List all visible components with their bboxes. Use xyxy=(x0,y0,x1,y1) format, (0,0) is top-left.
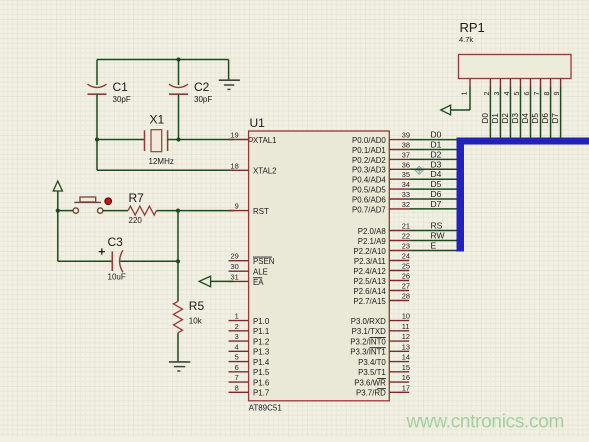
svg-text:7: 7 xyxy=(235,373,239,382)
svg-text:P0.6/AD6: P0.6/AD6 xyxy=(352,195,386,204)
pin 19 connection dot xyxy=(249,138,253,142)
pin 1 of RP1 xyxy=(460,79,471,111)
pin 12 P3.2/INT0 xyxy=(350,332,410,346)
svg-text:29: 29 xyxy=(230,252,238,261)
resistor R7 xyxy=(128,206,157,215)
svg-text:P0.7/AD7: P0.7/AD7 xyxy=(352,205,386,214)
pin 7 of RP1 wire D5 xyxy=(531,79,541,139)
svg-text:13: 13 xyxy=(402,342,410,351)
svg-text:P2.0/A8: P2.0/A8 xyxy=(358,227,387,236)
svg-text:AT89C51: AT89C51 xyxy=(249,403,283,412)
svg-text:P1.5: P1.5 xyxy=(253,368,270,377)
pin 23 P2.2/A10 xyxy=(353,242,410,256)
svg-text:P3.2/INT0: P3.2/INT0 xyxy=(350,337,386,346)
crystal X1 xyxy=(145,130,168,152)
pin 30 ALE xyxy=(229,262,268,276)
svg-text:P3.1/TXD: P3.1/TXD xyxy=(352,327,387,336)
svg-text:P1.4: P1.4 xyxy=(253,358,270,367)
svg-text:U1: U1 xyxy=(250,116,266,130)
plus sign of C3 xyxy=(99,248,105,254)
svg-text:P1.2: P1.2 xyxy=(253,337,269,346)
svg-text:17: 17 xyxy=(402,383,410,392)
svg-text:P0.3/AD3: P0.3/AD3 xyxy=(352,166,386,175)
svg-text:P1.0: P1.0 xyxy=(253,317,270,326)
pin 11 P3.1/TXD xyxy=(352,322,410,336)
pin 5 of RP1 wire D3 xyxy=(511,79,521,139)
svg-text:25: 25 xyxy=(402,262,410,271)
svg-text:P0.4/AD4: P0.4/AD4 xyxy=(352,176,386,185)
svg-text:220: 220 xyxy=(129,216,143,225)
svg-text:30pF: 30pF xyxy=(194,95,212,104)
pin 22 P2.1/A9 xyxy=(358,232,410,246)
svg-text:D2: D2 xyxy=(501,113,510,124)
pin 15 P3.5/T1 xyxy=(358,363,410,377)
wire RS P2.0 to bus xyxy=(409,230,457,232)
svg-text:6: 6 xyxy=(235,363,239,372)
button red indicator xyxy=(105,198,112,205)
node C2 bottom junction xyxy=(176,137,180,141)
pin 13 P3.3/INT1 xyxy=(350,342,410,356)
resistor R5 xyxy=(174,301,183,333)
svg-text:RST: RST xyxy=(253,207,269,216)
pin 3 P1.2 xyxy=(229,332,270,346)
svg-text:P0.5/AD5: P0.5/AD5 xyxy=(352,186,386,195)
svg-text:33: 33 xyxy=(402,190,410,199)
wire RP1 pin1 to power terminal xyxy=(450,109,470,111)
svg-text:P2.2/A10: P2.2/A10 xyxy=(353,247,386,256)
svg-text:11: 11 xyxy=(402,322,410,331)
svg-text:XTAL1: XTAL1 xyxy=(253,136,277,145)
ground bottom xyxy=(169,362,190,371)
pin 1 P1.0 xyxy=(229,312,270,326)
push button switch xyxy=(73,197,103,213)
pin 21 P2.0/A8 xyxy=(358,222,410,236)
svg-text:P0.0/AD0: P0.0/AD0 xyxy=(352,136,386,145)
wire RW P2.1 to bus xyxy=(409,240,457,242)
pin 4 P1.3 xyxy=(229,342,270,356)
wire D2 P0.2 to bus xyxy=(409,158,457,160)
svg-text:32: 32 xyxy=(402,200,410,209)
svg-text:P3.6/WR: P3.6/WR xyxy=(354,378,386,387)
wire D5 P0.5 to bus xyxy=(409,188,457,190)
svg-text:RW: RW xyxy=(431,231,445,241)
wire left vertical C1 to XTAL2 row xyxy=(96,140,98,171)
pin 34 P0.5/AD5 xyxy=(352,180,410,194)
wire EA terminal to pin 31 xyxy=(211,280,234,282)
resistor pack RP1 body xyxy=(459,55,572,79)
svg-text:C3: C3 xyxy=(108,235,124,249)
svg-text:10uF: 10uF xyxy=(108,273,126,282)
svg-text:24: 24 xyxy=(402,252,410,261)
svg-text:R7: R7 xyxy=(129,191,145,205)
node C3 right junction xyxy=(176,259,180,263)
node switch-row left junction xyxy=(56,209,60,213)
svg-text:P3.0/RXD: P3.0/RXD xyxy=(351,317,386,326)
svg-text:22: 22 xyxy=(402,232,410,241)
pin 35 P0.4/AD4 xyxy=(352,170,410,184)
svg-text:D4: D4 xyxy=(431,169,442,179)
svg-text:D7: D7 xyxy=(551,113,560,124)
pin 37 P0.2/AD2 xyxy=(352,150,410,164)
svg-text:X1: X1 xyxy=(150,113,165,127)
svg-text:38: 38 xyxy=(402,141,410,150)
svg-text:C2: C2 xyxy=(194,80,210,94)
svg-text:12: 12 xyxy=(402,332,410,341)
svg-text:1: 1 xyxy=(235,312,239,321)
svg-text:1: 1 xyxy=(460,92,469,96)
pin 36 P0.3/AD3 xyxy=(352,160,410,174)
pin 31 EA xyxy=(229,272,265,286)
wire down to R5 xyxy=(177,261,179,301)
pin 39 P0.0/AD0 xyxy=(352,131,410,145)
wire top C1 to ground corner xyxy=(97,59,229,61)
svg-text:P2.5/A13: P2.5/A13 xyxy=(353,277,386,286)
pin 10 P3.0/RXD xyxy=(351,312,410,326)
pin 3 of RP1 wire D1 xyxy=(491,79,501,139)
pin 9 of RP1 wire D7 xyxy=(551,79,561,139)
IC U1 AT89C51 body xyxy=(249,131,390,401)
svg-text:D5: D5 xyxy=(531,113,540,124)
svg-text:5: 5 xyxy=(235,353,239,362)
wire D0 P0.0 to bus xyxy=(409,139,457,141)
svg-text:2: 2 xyxy=(235,322,239,331)
svg-text:16: 16 xyxy=(402,373,410,382)
svg-text:XTAL2: XTAL2 xyxy=(253,167,277,176)
svg-text:4: 4 xyxy=(502,92,511,96)
pin 6 of RP1 wire D4 xyxy=(521,79,531,139)
wire D7 P0.7 to bus xyxy=(409,208,457,210)
svg-text:23: 23 xyxy=(402,242,410,251)
pin 38 P0.1/AD1 xyxy=(352,141,410,155)
pin 6 P1.5 xyxy=(229,363,270,377)
svg-text:19: 19 xyxy=(230,131,238,140)
svg-text:D0: D0 xyxy=(481,113,490,124)
svg-text:28: 28 xyxy=(402,292,410,301)
wire XTAL1 row left xyxy=(97,139,145,141)
svg-text:RP1: RP1 xyxy=(460,20,485,35)
svg-text:34: 34 xyxy=(402,180,410,189)
svg-text:37: 37 xyxy=(402,150,410,159)
svg-text:P1.6: P1.6 xyxy=(253,378,270,387)
wire XTAL2 row to U1 pin 18 xyxy=(97,169,234,171)
svg-text:P2.6/A14: P2.6/A14 xyxy=(353,287,386,296)
svg-text:E: E xyxy=(431,241,437,251)
svg-text:P2.3/A11: P2.3/A11 xyxy=(354,257,386,266)
svg-text:P3.3/INT1: P3.3/INT1 xyxy=(350,348,386,357)
RP1 power terminal (left arrow) xyxy=(441,105,451,115)
pin 19 XTAL1 xyxy=(229,131,277,145)
svg-text:30pF: 30pF xyxy=(113,95,131,104)
svg-text:2: 2 xyxy=(482,92,491,96)
pin 27 P2.6/A14 xyxy=(353,282,410,296)
svg-text:8: 8 xyxy=(235,383,239,392)
pin 33 P0.6/AD6 xyxy=(352,190,410,204)
wire D1 P0.1 to bus xyxy=(409,149,457,151)
node C1 bottom junction xyxy=(95,137,99,141)
svg-text:www.cntronics.com: www.cntronics.com xyxy=(406,412,565,433)
svg-text:5: 5 xyxy=(512,92,521,96)
svg-text:26: 26 xyxy=(402,272,410,281)
svg-text:EA: EA xyxy=(253,278,264,287)
pin 32 P0.7/AD7 xyxy=(352,200,410,214)
wire power to switch row xyxy=(57,191,59,211)
svg-text:D3: D3 xyxy=(431,159,442,169)
pin 17 P3.7/RD xyxy=(356,383,410,397)
wire C3 right lead xyxy=(120,260,178,262)
svg-text:P2.1/A9: P2.1/A9 xyxy=(358,237,387,246)
svg-text:PSEN: PSEN xyxy=(253,257,275,266)
svg-text:7: 7 xyxy=(532,92,541,96)
pin 5 P1.4 xyxy=(229,353,270,367)
svg-text:P3.4/T0: P3.4/T0 xyxy=(358,358,386,367)
svg-text:P3.5/T1: P3.5/T1 xyxy=(358,368,386,377)
wire R7 to U1 pin 9 RST xyxy=(157,210,234,212)
svg-text:12MHz: 12MHz xyxy=(149,157,174,166)
svg-text:6: 6 xyxy=(522,92,531,96)
pin 26 P2.5/A13 xyxy=(353,272,410,286)
svg-text:35: 35 xyxy=(402,170,410,179)
wire E P2.2 to bus xyxy=(409,250,457,252)
svg-text:D2: D2 xyxy=(431,149,442,159)
svg-text:10k: 10k xyxy=(189,317,203,326)
svg-text:3: 3 xyxy=(492,92,501,96)
svg-text:39: 39 xyxy=(402,131,410,140)
wire ground drop xyxy=(228,60,230,81)
pin 18 XTAL2 xyxy=(229,161,277,175)
origin marker diamond xyxy=(415,166,423,174)
svg-text:15: 15 xyxy=(402,363,410,372)
svg-text:4.7k: 4.7k xyxy=(459,35,473,44)
svg-text:27: 27 xyxy=(402,282,410,291)
svg-text:D7: D7 xyxy=(431,199,442,209)
bus horizontal xyxy=(457,138,589,145)
pin 24 P2.3/A11 xyxy=(354,252,410,266)
pin 7 P1.6 xyxy=(229,373,270,387)
pin 2 of RP1 wire D0 xyxy=(481,79,491,139)
pin 8 P1.7 xyxy=(229,383,270,397)
svg-text:P0.2/AD2: P0.2/AD2 xyxy=(352,156,386,165)
pin 16 P3.6/WR xyxy=(354,373,410,387)
EA power terminal (left arrow) xyxy=(199,276,210,287)
svg-text:D0: D0 xyxy=(431,130,442,140)
svg-text:36: 36 xyxy=(402,160,410,169)
svg-text:14: 14 xyxy=(402,353,410,362)
svg-text:ALE: ALE xyxy=(253,268,268,277)
power terminal (up arrow) xyxy=(53,181,62,191)
svg-text:P0.1/AD1: P0.1/AD1 xyxy=(352,146,386,155)
capacitor C2 xyxy=(169,60,188,140)
svg-text:D6: D6 xyxy=(431,189,442,199)
wire left vertical to C3 xyxy=(57,211,59,262)
svg-text:D6: D6 xyxy=(541,113,550,124)
svg-text:RS: RS xyxy=(431,221,443,231)
wire XTAL1 row right to U1 pin 19 xyxy=(168,139,234,141)
wire D3 P0.3 to bus xyxy=(409,168,457,170)
wire button to R7 xyxy=(103,210,128,212)
svg-text:30: 30 xyxy=(230,262,238,271)
wire branch down to C3 row xyxy=(177,211,179,262)
svg-text:21: 21 xyxy=(402,222,410,231)
svg-text:3: 3 xyxy=(235,332,239,341)
svg-text:P1.3: P1.3 xyxy=(253,348,270,357)
wire C3 left lead xyxy=(58,260,113,262)
wire to push button left contact xyxy=(58,210,73,212)
bus vertical xyxy=(457,138,465,252)
svg-text:10: 10 xyxy=(402,312,410,321)
svg-text:P2.7/A15: P2.7/A15 xyxy=(353,297,386,306)
svg-text:D1: D1 xyxy=(491,113,500,124)
capacitor C3 (polarized) xyxy=(112,250,123,272)
svg-text:D1: D1 xyxy=(431,140,442,150)
node RST branch junction xyxy=(176,209,180,213)
ground top xyxy=(219,80,240,89)
svg-text:9: 9 xyxy=(235,202,239,211)
svg-text:P2.4/A12: P2.4/A12 xyxy=(353,267,385,276)
svg-text:P3.7/RD: P3.7/RD xyxy=(356,389,386,398)
svg-text:R5: R5 xyxy=(189,299,205,313)
svg-text:4: 4 xyxy=(235,342,239,351)
pin 4 of RP1 wire D2 xyxy=(501,79,511,139)
wire D4 P0.4 to bus xyxy=(409,178,457,180)
pin 29 PSEN xyxy=(229,252,275,266)
svg-text:C1: C1 xyxy=(113,80,129,94)
svg-text:18: 18 xyxy=(230,161,238,170)
svg-text:P1.1: P1.1 xyxy=(253,327,269,336)
node C2 top junction xyxy=(176,57,180,61)
pin 2 P1.1 xyxy=(229,322,270,336)
pin 9 RST xyxy=(229,202,269,216)
svg-text:D5: D5 xyxy=(431,179,442,189)
svg-text:P1.7: P1.7 xyxy=(253,389,269,398)
wire R5 to ground xyxy=(177,333,179,362)
pin 8 of RP1 wire D6 xyxy=(541,79,551,139)
svg-text:8: 8 xyxy=(542,92,551,96)
svg-text:D3: D3 xyxy=(511,113,520,124)
wire D6 P0.6 to bus xyxy=(409,198,457,200)
pin 28 P2.7/A15 xyxy=(353,292,410,306)
svg-text:D4: D4 xyxy=(521,113,530,124)
svg-text:31: 31 xyxy=(230,272,238,281)
pin 25 P2.4/A12 xyxy=(353,262,410,276)
capacitor C1 xyxy=(88,60,107,140)
pin 14 P3.4/T0 xyxy=(358,353,410,367)
svg-text:9: 9 xyxy=(552,92,561,96)
